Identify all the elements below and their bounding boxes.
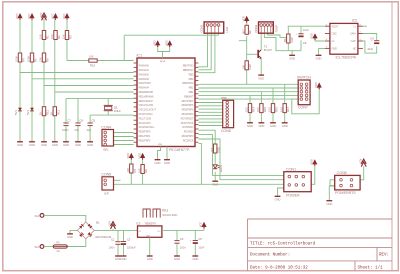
svg-text:IC1: IC1 — [137, 54, 142, 58]
svg-text:4K7: 4K7 — [241, 29, 245, 34]
svg-text:ICP: ICP — [104, 191, 109, 195]
svg-text:C9: C9 — [91, 118, 95, 122]
svg-text:REV:: REV: — [379, 253, 389, 257]
svg-text:SWITCH: SWITCH — [297, 76, 311, 80]
svg-text:RD4/PSP4: RD4/PSP4 — [182, 112, 194, 116]
ground under R19 — [289, 54, 295, 56]
svg-text:GND: GND — [67, 235, 73, 239]
svg-text:1K: 1K — [50, 111, 54, 115]
svg-text:GND: GND — [258, 124, 264, 128]
wire — [287, 26, 289, 34]
ground under IC3 — [147, 255, 153, 257]
svg-text:VO: VO — [157, 231, 160, 233]
supply VCC arrow at rail — [201, 222, 206, 227]
zener diode D2 — [30, 108, 34, 111]
svg-text:1K5: 1K5 — [256, 107, 260, 112]
svg-text:10K: 10K — [137, 168, 141, 173]
resistor R17 — [283, 104, 286, 113]
resistor R15 — [260, 104, 263, 113]
svg-text:C1: C1 — [111, 238, 115, 242]
svg-text:RB4: RB4 — [189, 77, 194, 81]
wire — [287, 43, 289, 51]
connector CON1 POWER — [284, 172, 311, 192]
svg-text:VCC: VCC — [15, 13, 19, 19]
supply +12V arrow at rail — [111, 222, 116, 229]
wire — [114, 132, 134, 134]
wire — [94, 229, 137, 231]
wire — [130, 158, 132, 184]
resistor R16 — [271, 104, 274, 113]
svg-text:GND: GND — [29, 143, 35, 147]
resistor R9 — [245, 25, 248, 34]
wire — [44, 246, 53, 248]
svg-text:VDD: VDD — [126, 153, 130, 159]
wire — [198, 105, 222, 107]
capacitor C3 — [174, 240, 179, 242]
svg-text:1K5: 1K5 — [210, 147, 214, 152]
svg-text:R8: R8 — [144, 169, 148, 173]
svg-text:+12V: +12V — [108, 221, 112, 227]
svg-text:GND: GND — [316, 57, 322, 61]
svg-text:C7: C7 — [67, 118, 71, 122]
transistor T1 — [257, 50, 259, 58]
svg-text:RE1/WR/AN6: RE1/WR/AN6 — [139, 94, 155, 98]
title block grid — [248, 219, 393, 271]
svg-text:RB1: RB1 — [189, 90, 194, 94]
resistor R19 — [287, 34, 290, 43]
svg-text:R15: R15 — [263, 107, 267, 112]
wire — [176, 244, 178, 256]
svg-text:CON7: CON7 — [298, 106, 308, 110]
svg-text:C2: C2 — [127, 238, 131, 242]
wire — [319, 48, 325, 55]
wire — [114, 136, 134, 138]
connector CON3 — [204, 22, 224, 33]
wire — [214, 172, 216, 181]
wire — [90, 115, 108, 141]
supply VCC arrow 2 — [29, 13, 34, 18]
wire — [360, 166, 364, 180]
svg-text:VDD: VDD — [164, 40, 168, 46]
wire — [142, 158, 144, 184]
svg-text:RC1/T1OSI: RC1/T1OSI — [139, 116, 152, 120]
svg-text:Date: 9-8-2008 10:51:32: Date: 9-8-2008 10:51:32 — [250, 266, 308, 270]
svg-text:RB2: RB2 — [189, 86, 194, 90]
wire — [363, 25, 367, 27]
svg-text:VCC: VCC — [199, 222, 203, 228]
resistor R18 — [245, 61, 248, 70]
wire — [149, 237, 151, 255]
wire — [198, 115, 222, 117]
svg-text:10K: 10K — [50, 34, 54, 39]
wire — [315, 38, 325, 41]
svg-text:R5: R5 — [34, 58, 38, 62]
supply VCC arrow 3 — [53, 13, 58, 18]
wire — [272, 88, 274, 104]
svg-text:5V1: 5V1 — [26, 110, 30, 115]
supply VCC arrow 1 — [17, 13, 22, 18]
svg-text:RD1/PSP1: RD1/PSP1 — [139, 134, 151, 138]
wire — [363, 41, 377, 53]
svg-text:PIC16F877P: PIC16F877P — [169, 148, 190, 152]
ground VSS pin b — [164, 159, 170, 161]
svg-text:VOUT: VOUT — [332, 25, 339, 28]
wire — [107, 99, 109, 116]
svg-text:RB5: RB5 — [189, 72, 194, 76]
svg-text:POWER: POWER — [286, 193, 300, 197]
svg-text:CON6: CON6 — [221, 129, 231, 133]
supply VCC arrow 4 — [64, 13, 69, 18]
wire — [239, 40, 247, 42]
svg-text:CAP+: CAP+ — [350, 33, 357, 36]
svg-text:1K5: 1K5 — [245, 107, 249, 112]
ground under R15 — [259, 122, 265, 124]
capacitor C6 — [298, 33, 303, 35]
svg-text:R17: R17 — [286, 107, 290, 112]
wire — [260, 113, 262, 123]
svg-text:RE2/CS/AN7: RE2/CS/AN7 — [139, 99, 154, 103]
svg-text:RB7/PGD: RB7/PGD — [183, 64, 194, 68]
svg-text:RC3/SCK/SCL: RC3/SCK/SCL — [139, 125, 156, 129]
connector CON5 ICP — [102, 177, 114, 190]
svg-text:R10: R10 — [217, 147, 221, 152]
ground under C5 — [192, 255, 198, 257]
heatsink KK1 — [143, 209, 160, 218]
wire — [124, 34, 218, 36]
resistor R3 — [65, 31, 68, 40]
fuse F1 — [53, 245, 67, 248]
wire — [278, 188, 284, 196]
svg-text:CON8: CON8 — [337, 171, 347, 175]
wire — [284, 113, 286, 123]
svg-text:GND: GND — [282, 124, 288, 128]
supply VDD arrow right of IC1 top — [167, 40, 172, 45]
svg-text:RA5/AN4: RA5/AN4 — [139, 86, 150, 90]
wire — [194, 230, 196, 240]
resistor R8 — [141, 165, 144, 174]
wire — [260, 33, 262, 50]
op-amp IC1 PIC16F877 body — [137, 58, 195, 147]
svg-text:LED1: LED1 — [219, 165, 223, 172]
ground under R17 — [282, 122, 288, 124]
wire — [198, 33, 211, 70]
capacitor C1 — [115, 241, 120, 243]
svg-text:LV: LV — [332, 40, 335, 43]
svg-text:R19: R19 — [290, 37, 294, 42]
supply +12V arrow at CON8 — [361, 159, 366, 166]
wire — [198, 139, 283, 180]
resistor R7 — [130, 164, 133, 173]
LED LED1 — [213, 165, 217, 169]
wire — [246, 21, 248, 25]
svg-text:GND: GND — [212, 182, 218, 186]
svg-text:TSOP: TSOP — [274, 25, 278, 33]
frame inner right line — [391, 2, 393, 271]
svg-text:10K: 10K — [241, 65, 245, 70]
ground under C2 — [121, 255, 127, 257]
svg-text:R14: R14 — [252, 107, 256, 112]
capacitor C7 — [63, 122, 68, 124]
capacitor C5 — [193, 240, 198, 242]
svg-text:LCD: LCD — [225, 27, 229, 32]
svg-text:C4: C4 — [370, 37, 374, 41]
svg-text:4MHz: 4MHz — [114, 109, 122, 113]
svg-text:VCC: VCC — [50, 13, 54, 19]
IC2 pin stubs — [325, 25, 330, 27]
svg-text:KK1: KK1 — [162, 208, 168, 212]
resistor R4 — [18, 53, 21, 62]
wire — [114, 183, 284, 185]
svg-text:GND: GND — [164, 161, 170, 165]
wire — [300, 26, 302, 33]
svg-text:GND: GND — [192, 257, 198, 261]
svg-text:Sheet: 1/1: Sheet: 1/1 — [358, 265, 384, 270]
svg-text:2200uF: 2200uF — [127, 245, 136, 249]
wire — [77, 99, 79, 142]
wire — [123, 245, 125, 256]
svg-text:GND: GND — [155, 161, 161, 165]
svg-text:RD7/PSP7: RD7/PSP7 — [182, 99, 194, 103]
wire — [198, 118, 222, 120]
svg-text:R18: R18 — [248, 64, 252, 69]
wire — [19, 19, 21, 142]
svg-text:100N: 100N — [62, 128, 68, 132]
wire — [65, 99, 67, 142]
wire — [55, 91, 134, 93]
wire — [292, 88, 319, 114]
wire — [214, 153, 216, 164]
svg-text:RC0/T1OSO: RC0/T1OSO — [139, 112, 153, 116]
resistor R10 — [214, 144, 217, 153]
wire — [158, 45, 163, 58]
ground under column 3 — [41, 141, 47, 143]
wire — [31, 19, 33, 142]
wire — [54, 19, 56, 142]
connector CON8 POWERRTS — [335, 175, 360, 190]
connector CON6 — [223, 100, 234, 127]
supply VDD arrow at IC2 — [312, 33, 317, 38]
wire — [114, 140, 134, 142]
wire — [288, 25, 325, 27]
ground under R14 — [247, 122, 253, 124]
svg-text:+12V: +12V — [39, 13, 43, 19]
svg-text:GND: GND — [332, 48, 338, 51]
wire — [114, 179, 121, 181]
svg-text:GND: GND — [17, 143, 23, 147]
svg-text:MCLR: MCLR — [160, 61, 166, 63]
wire — [114, 144, 134, 146]
svg-text:10K: 10K — [39, 34, 43, 39]
svg-text:10uF: 10uF — [367, 47, 373, 51]
ground at CON8 — [326, 200, 332, 202]
wire — [198, 94, 298, 96]
svg-text:SK104-PAD: SK104-PAD — [162, 213, 178, 217]
resistor R2 — [54, 31, 57, 40]
wire — [44, 215, 86, 222]
svg-text:OSC: OSC — [332, 33, 337, 36]
title block REV text — [379, 253, 389, 257]
wire — [291, 51, 293, 55]
wire — [198, 111, 222, 113]
wire — [264, 33, 288, 51]
wire — [198, 108, 222, 110]
svg-text:RC7/RX/DT: RC7/RX/DT — [181, 116, 194, 120]
wire — [166, 147, 168, 160]
ground under C3 — [174, 255, 180, 257]
svg-text:RA1/AN1: RA1/AN1 — [139, 68, 150, 72]
ground under C9 — [87, 141, 93, 143]
svg-text:RD3/PSP3: RD3/PSP3 — [182, 134, 194, 138]
svg-text:R6: R6 — [46, 58, 50, 62]
svg-text:CON5: CON5 — [101, 173, 111, 177]
wire — [260, 92, 262, 104]
wire — [66, 19, 68, 61]
svg-text:RECTIFIER-KBL: RECTIFIER-KBL — [96, 237, 113, 239]
svg-text:VCC: VCC — [62, 13, 66, 19]
svg-text:IC3: IC3 — [136, 222, 141, 226]
svg-text:VDD: VDD — [152, 40, 156, 46]
voltage regulator IC3 body — [138, 226, 162, 237]
resistor R13 10K horizontal — [89, 59, 97, 62]
svg-text:100K: 100K — [15, 56, 19, 62]
svg-text:RB0/INT: RB0/INT — [184, 94, 194, 98]
svg-text:5V1: 5V1 — [14, 110, 18, 115]
svg-text:GND: GND — [275, 198, 281, 202]
connector CON2 TSOP — [259, 22, 274, 33]
svg-text:RA0/AN0: RA0/AN0 — [139, 64, 150, 68]
svg-text:VDD: VDD — [310, 159, 314, 165]
wire — [260, 58, 262, 75]
wire — [43, 19, 45, 142]
wire — [163, 45, 170, 52]
wire — [67, 239, 86, 247]
pad X2-1 — [40, 245, 44, 249]
ground at CON1 — [275, 195, 281, 197]
svg-text:10K: 10K — [62, 34, 66, 39]
svg-text:B1: B1 — [96, 221, 100, 225]
bridge rectifier B1 — [77, 222, 94, 239]
wire — [117, 230, 119, 241]
wire — [198, 83, 298, 85]
wire — [198, 91, 298, 93]
ground under LED1 — [212, 180, 218, 182]
svg-text:C8: C8 — [79, 118, 83, 122]
wire — [249, 95, 251, 103]
title block sheet text — [358, 265, 384, 270]
svg-text:RC4/SDI: RC4/SDI — [184, 130, 194, 134]
wire — [123, 35, 125, 60]
svg-text:F1: F1 — [57, 241, 61, 245]
svg-text:CAP-: CAP- — [351, 40, 357, 43]
svg-text:22p: 22p — [75, 128, 80, 132]
svg-text:GND: GND — [247, 124, 253, 128]
svg-text:NC: NC — [353, 48, 357, 51]
svg-text:C5: C5 — [198, 237, 202, 241]
wire — [67, 60, 134, 62]
pad X2-2 — [40, 214, 44, 218]
wire — [272, 113, 274, 123]
svg-text:VDD: VDD — [221, 96, 227, 100]
wire — [311, 166, 315, 184]
supply +12V arrow — [42, 13, 47, 20]
title block document number text — [250, 252, 290, 257]
svg-text:CON4: CON4 — [101, 125, 111, 129]
wire — [198, 121, 222, 123]
svg-text:GND: GND — [63, 143, 69, 147]
svg-text:RA3/AN3: RA3/AN3 — [139, 77, 150, 81]
wire — [123, 230, 125, 241]
svg-text:RA4/T0CKI: RA4/T0CKI — [139, 81, 152, 85]
wire — [246, 36, 248, 61]
svg-text:RD0/PSP0: RD0/PSP0 — [139, 130, 151, 134]
svg-text:R16: R16 — [275, 107, 279, 112]
svg-text:R3: R3 — [69, 35, 73, 39]
svg-text:OSC1/CLKIN: OSC1/CLKIN — [139, 103, 154, 107]
svg-text:78S05TV: 78S05TV — [145, 222, 157, 226]
wire — [44, 85, 134, 87]
wire — [198, 98, 298, 100]
svg-text:Document Number:: Document Number: — [250, 252, 290, 257]
wire — [198, 125, 222, 127]
capacitor C4 — [374, 40, 379, 42]
wire — [198, 102, 222, 104]
svg-text:10K: 10K — [89, 55, 94, 59]
wire — [32, 78, 134, 80]
wire — [117, 245, 119, 256]
svg-text:1K5: 1K5 — [268, 107, 272, 112]
svg-text:CON3: CON3 — [200, 24, 204, 32]
ground under column 1 — [17, 141, 23, 143]
wire — [268, 33, 288, 37]
svg-text:1K: 1K — [39, 111, 43, 115]
svg-text:EKL: EKL — [104, 147, 110, 151]
svg-text:RD6/PSP6: RD6/PSP6 — [182, 103, 194, 107]
svg-text:R12: R12 — [56, 110, 60, 115]
ground under C7 — [63, 141, 69, 143]
svg-text:C6: C6 — [303, 41, 307, 45]
title block TITLE text — [250, 242, 316, 247]
svg-text:RC6/TX/CK: RC6/TX/CK — [181, 121, 194, 125]
svg-text:RC5/SDO: RC5/SDO — [183, 125, 194, 129]
resistor R1 — [42, 31, 45, 40]
connector CON4 EKL — [102, 130, 114, 147]
svg-text:RC2/CCP1: RC2/CCP1 — [139, 121, 152, 125]
svg-text:BC337: BC337 — [264, 48, 273, 52]
capacitor C9 — [88, 122, 93, 124]
wire — [198, 135, 283, 176]
ground under R16 — [270, 122, 276, 124]
ground at IC2 — [316, 54, 322, 56]
svg-text:RE0/RD/AN5: RE0/RD/AN5 — [139, 90, 154, 94]
svg-text:RD2/PSP2: RD2/PSP2 — [139, 138, 151, 142]
supply VDD arrow left of IC1 top — [155, 40, 160, 45]
svg-text:2A: 2A — [57, 249, 60, 253]
svg-text:C3: C3 — [180, 237, 184, 241]
wire — [162, 229, 204, 231]
crystal Q1 — [104, 104, 113, 106]
svg-text:GND: GND — [146, 235, 151, 237]
wire — [112, 229, 114, 230]
wire — [70, 230, 77, 233]
svg-text:TITLE: rc5-Controllerboard: TITLE: rc5-Controllerboard — [250, 242, 316, 247]
svg-text:10uF: 10uF — [198, 245, 204, 249]
ground under C8 — [75, 141, 81, 143]
wire — [247, 53, 258, 55]
svg-text:IC2: IC2 — [352, 18, 357, 22]
ground under C1 — [115, 255, 121, 257]
svg-text:GND: GND — [75, 143, 81, 147]
wire — [198, 33, 215, 72]
